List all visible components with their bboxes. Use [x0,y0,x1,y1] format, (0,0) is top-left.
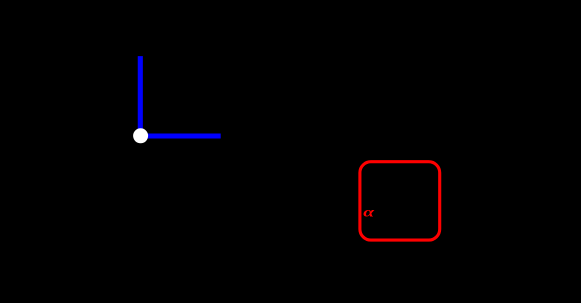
red rounded rectangle [360,162,440,240]
point (white dot) [133,128,148,143]
blue horizontal segment [141,134,221,139]
svg-text:α: α [363,204,375,219]
blue vertical segment [138,56,143,136]
label alpha [363,204,375,219]
